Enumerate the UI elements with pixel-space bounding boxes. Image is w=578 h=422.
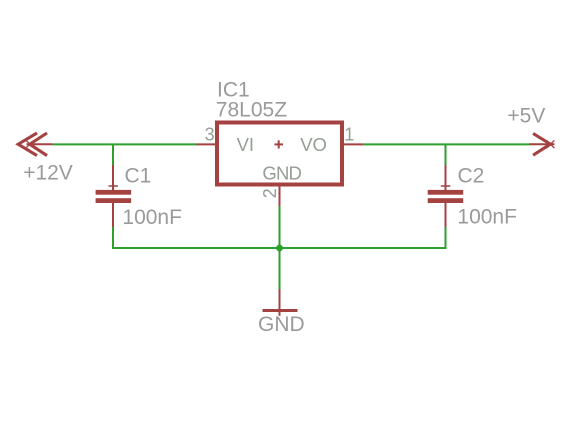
svg-text:GND: GND bbox=[262, 163, 301, 184]
svg-text:3: 3 bbox=[205, 124, 215, 144]
svg-text:C2: C2 bbox=[458, 164, 485, 187]
svg-text:1: 1 bbox=[344, 124, 354, 144]
svg-text:2: 2 bbox=[260, 188, 280, 198]
svg-text:100nF: 100nF bbox=[122, 206, 182, 229]
svg-text:C1: C1 bbox=[125, 164, 152, 187]
svg-text:78L05Z: 78L05Z bbox=[216, 98, 287, 121]
svg-text:VI: VI bbox=[237, 134, 254, 155]
svg-text:+12V: +12V bbox=[23, 162, 73, 185]
svg-text:GND: GND bbox=[258, 313, 305, 336]
svg-text:+5V: +5V bbox=[507, 105, 545, 128]
svg-text:100nF: 100nF bbox=[457, 205, 517, 228]
svg-text:VO: VO bbox=[300, 134, 327, 155]
